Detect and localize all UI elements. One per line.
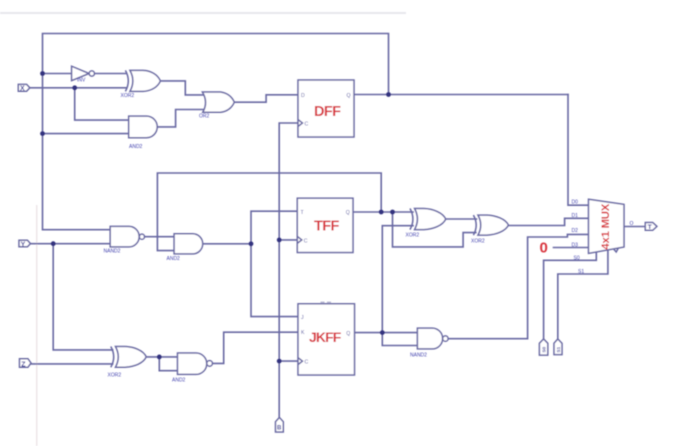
wire TFF feedback loop to AND2 lower input (157, 173, 381, 251)
JKFF clock wedge (298, 358, 303, 365)
wire S1 terminal to MUX select (558, 251, 608, 339)
wire AND2 lower input from bus (43, 133, 130, 135)
wire Y branch to XOR2 upper input bottom row (53, 244, 112, 350)
wire XOR2 output bottom row (146, 356, 177, 358)
DFF clock wedge (298, 120, 303, 127)
wire JKFF C input (279, 360, 298, 362)
svg-text:TFF: TFF (314, 219, 340, 235)
svg-text:XOR2: XOR2 (121, 93, 135, 99)
wire XOR2 output to second XOR2 input (446, 218, 477, 220)
xor gate XOR2 top row (125, 70, 160, 91)
wire clock net B vertical (279, 123, 298, 418)
node Y branch (51, 241, 56, 246)
svg-text:S1: S1 (556, 346, 561, 352)
wire AND2 output to OR2 lower input (157, 110, 205, 127)
input terminal Y (19, 240, 30, 247)
node X branch (72, 85, 77, 90)
and gate AND2 middle row (174, 234, 203, 254)
inverter INV (72, 66, 95, 80)
node JKFF Q branch (380, 330, 385, 335)
wire top feedback loop from DFF Q to NAND2 upper input (43, 34, 389, 230)
wire AND2 output to JKFF K input (212, 332, 298, 363)
svg-text:XOR2: XOR2 (471, 239, 485, 245)
svg-text:XOR2: XOR2 (406, 233, 420, 239)
svg-text:XOR2: XOR2 (108, 373, 122, 379)
wire second XOR2 output to MUX D1 (508, 218, 589, 225)
wire TFF C input (279, 239, 297, 241)
node clock TFF tap (277, 238, 282, 243)
input terminal Z (20, 359, 32, 368)
svg-text:Q: Q (347, 93, 351, 99)
wire constant 0 to MUX D3 (554, 247, 590, 249)
svg-text:NAND2: NAND2 (104, 249, 121, 255)
svg-text:X: X (20, 86, 25, 93)
wire OR2 output to DFF D (234, 95, 298, 102)
svg-text:AND2: AND2 (167, 256, 181, 262)
wire INV output to XOR2 upper input (94, 73, 126, 75)
svg-text:D1: D1 (572, 213, 579, 219)
svg-text:AND2: AND2 (129, 144, 143, 150)
input terminal S1 (554, 339, 562, 355)
svg-text:S1: S1 (578, 269, 584, 275)
svg-text:Q: Q (346, 210, 350, 216)
xor gate XOR2 after TFF (410, 209, 446, 230)
wire MUX output to terminal T (624, 226, 645, 228)
TFF clock wedge (297, 236, 302, 243)
node bus INV tap (40, 71, 45, 76)
or gate OR2 (202, 92, 234, 112)
node TFF Q detour tap (390, 210, 395, 215)
wire XOR2 output to OR2 upper input (160, 81, 205, 95)
wire node A to JKFF J input (251, 244, 298, 317)
nand-shaped gate AND2 bottom row (178, 353, 213, 374)
mux M4_1 body (589, 199, 625, 253)
wire S0 terminal to MUX select (544, 253, 597, 339)
mux bottom pin notch (614, 248, 618, 252)
svg-text:C: C (305, 122, 309, 128)
svg-text:B: B (277, 426, 282, 432)
xor gate XOR2 second (473, 215, 508, 235)
wire JKFF Q output (355, 332, 418, 334)
flip-flop JKFF box (298, 304, 355, 375)
svg-text:NAND2: NAND2 (410, 353, 427, 359)
svg-text:D2: D2 (572, 228, 579, 234)
wire TFF Q detour to XOR2 lower input (393, 212, 476, 247)
svg-text:J: J (301, 315, 304, 321)
wire NAND2 output to MUX D2 (448, 234, 589, 338)
node DFF Q branch (386, 92, 391, 97)
svg-text:4x1 MUX: 4x1 MUX (600, 203, 612, 249)
xor gate XOR2 bottom row (111, 347, 146, 368)
node clock JKFF tap (277, 359, 282, 364)
wire Z to XOR2 lower input (31, 363, 113, 365)
wire AND2 output node A (203, 243, 251, 245)
JKFF top pin remnant marks (321, 301, 332, 303)
input terminal X (18, 84, 30, 91)
svg-text:OR2: OR2 (199, 114, 210, 120)
wire node A to TFF T input (251, 211, 297, 244)
wire TFF Q output (353, 211, 413, 213)
node A AND2 output branch (249, 241, 254, 246)
wire X to XOR2 lower input (30, 87, 127, 89)
svg-text:D3: D3 (572, 243, 579, 249)
wire X branch to AND2 upper input (75, 88, 130, 120)
svg-text:D: D (301, 93, 305, 99)
svg-text:C: C (305, 360, 309, 366)
svg-text:DFF: DFF (314, 104, 341, 120)
svg-text:D0: D0 (572, 200, 579, 206)
wire DFF Q to MUX D0 vertical (354, 94, 568, 96)
wire Y to NAND2 lower input (30, 243, 111, 245)
flip-flop DFF box (298, 80, 354, 137)
svg-text:Z: Z (21, 361, 26, 368)
nand gate NAND2 middle row (110, 226, 144, 247)
svg-text:INV: INV (77, 78, 86, 84)
output terminal T (645, 223, 657, 231)
svg-text:C: C (304, 238, 308, 244)
faint toolbar remnant line top (0, 12, 406, 14)
svg-text:S0: S0 (574, 255, 580, 261)
node XOR2 output branch bottom row (157, 355, 162, 360)
input terminal S0 (539, 339, 547, 355)
wire JKFF Q loop to NAND2 lower input (382, 333, 417, 346)
input terminal B clock (276, 418, 284, 433)
and gate AND2 top row (129, 116, 158, 138)
wire JKFF Q up to XOR2 lower input (382, 226, 413, 333)
node TFF Q loop tap (379, 210, 384, 215)
wire loop to AND2 lower input bottom row (159, 357, 177, 371)
node bus AND2 tap (40, 131, 45, 136)
faint vertical artifact left (36, 205, 37, 446)
svg-text:Q: Q (346, 331, 350, 337)
svg-text:K: K (301, 330, 305, 336)
wire D0 drop into MUX (568, 95, 589, 206)
wire NAND2 output to AND2 upper input (145, 236, 175, 238)
svg-text:AND2: AND2 (172, 378, 186, 384)
svg-text:Y: Y (21, 241, 26, 248)
svg-text:O: O (630, 221, 634, 227)
nand gate NAND2 after JKFF (417, 328, 448, 349)
flip-flop TFF box (297, 198, 353, 252)
svg-text:JKFF: JKFF (309, 329, 342, 345)
svg-text:S0: S0 (542, 346, 547, 352)
svg-text:0: 0 (540, 240, 548, 257)
wire INV input from bus (43, 73, 72, 75)
